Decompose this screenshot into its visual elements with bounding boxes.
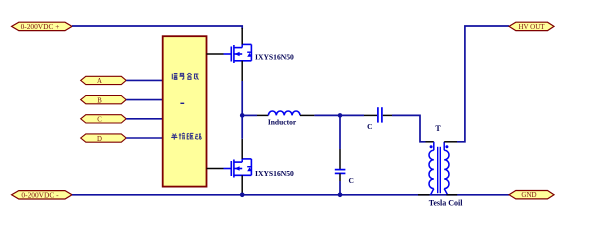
U1 text: 信号合成 (approximated strokes) <box>172 73 198 79</box>
Q2 body diode <box>247 167 252 172</box>
junction node N1 <box>338 113 343 118</box>
T1 core <box>438 147 441 193</box>
wire D to U1 <box>126 137 163 139</box>
junction C2 rail <box>338 193 343 198</box>
port C <box>81 115 127 124</box>
svg-text:A: A <box>97 78 102 85</box>
port HV OUT <box>509 22 554 31</box>
capacitor C1 (series) <box>378 107 382 122</box>
wire C to U1 <box>126 118 163 120</box>
U1 gate pin to Q2 (black) <box>207 168 224 170</box>
capacitor C2 (shunt) <box>335 170 346 174</box>
svg-text:GND: GND <box>521 191 536 199</box>
C2 bottom pin (black) <box>339 173 341 181</box>
T1 polarity dot right <box>445 145 448 148</box>
wire top rail from P1 to Q1 drain <box>72 26 242 29</box>
wire N1 to C1 <box>340 114 364 116</box>
C2 top pin (black) <box>339 149 341 169</box>
transistor Q1 IXYS16N50 (N-MOSFET) <box>231 44 251 63</box>
wire A to U1 <box>126 79 163 81</box>
Q1 body diode <box>247 52 252 57</box>
U1 text: - <box>180 102 184 104</box>
wire bottom rail <box>72 194 509 196</box>
port P2 0-200VDC - <box>12 191 72 200</box>
U1 text: 半桥驱动 (approximated strokes) <box>171 133 201 139</box>
char qu <box>187 133 193 139</box>
svg-text:Tesla Coil: Tesla Coil <box>429 199 463 208</box>
T1 primary top pin (black) <box>426 141 434 143</box>
transformer T1 Tesla Coil <box>429 142 449 195</box>
wire B to U1 <box>126 99 163 101</box>
wire Q1 source to mid node <box>241 81 243 115</box>
U1 gate pin to Q1 (black) <box>207 53 224 55</box>
T1 polarity dot left <box>430 145 433 148</box>
char xin <box>172 74 177 80</box>
char he <box>187 73 192 79</box>
svg-text:HV OUT: HV OUT <box>518 23 545 31</box>
Q2 drain pin (black) <box>241 139 243 159</box>
port GND <box>509 191 554 200</box>
char ban <box>171 134 177 140</box>
Q1 source pin (black) <box>241 61 243 81</box>
svg-text:D: D <box>97 136 102 143</box>
wire L1 to node N1 <box>314 114 340 116</box>
svg-text:IXYS16N50: IXYS16N50 <box>255 169 294 178</box>
driver block U1 (signal synthesis - half bridge drive) <box>163 36 207 186</box>
wire N1 to C2 <box>339 115 341 149</box>
wire C1 to T1 primary top <box>392 115 426 141</box>
char dong <box>195 134 201 140</box>
T1 secondary top pin (black) <box>444 141 457 143</box>
svg-text:C: C <box>97 117 102 124</box>
wire T1 secondary to HV OUT <box>457 26 509 142</box>
transistor Q2 IXYS16N50 (N-MOSFET) <box>231 159 251 178</box>
wire mid node to Q2 drain <box>241 115 243 138</box>
char qiao <box>179 133 185 139</box>
Q2 substrate arrow <box>235 166 240 171</box>
svg-text:0-200VDC -: 0-200VDC - <box>21 191 59 200</box>
L1 right pin (black) <box>300 114 314 116</box>
wire U1 pin to Q2 gate <box>224 168 232 170</box>
svg-text:C: C <box>367 122 372 131</box>
L1 left pin (black) <box>257 114 268 116</box>
svg-text:IXYS16N50: IXYS16N50 <box>255 53 294 62</box>
Q1 drain pin (black) <box>241 28 243 45</box>
port P1 0-200VDC + <box>12 22 72 31</box>
junction Q2 source rail <box>240 193 245 198</box>
Q1 substrate arrow <box>235 52 240 57</box>
char cheng <box>194 74 199 79</box>
Q2 source pin (black) <box>241 175 243 193</box>
svg-text:Inductor: Inductor <box>268 118 297 127</box>
svg-text:C: C <box>349 176 354 185</box>
junction mid node <box>240 113 245 118</box>
port A <box>81 76 127 85</box>
wire mid node to L1 <box>242 114 257 116</box>
wire U1 pin to Q1 gate <box>224 53 232 55</box>
wire C2 to bottom rail <box>339 181 341 195</box>
char hao <box>180 73 185 79</box>
svg-text:0-200VDC +: 0-200VDC + <box>21 22 60 31</box>
C1 left pin (black) <box>364 114 377 116</box>
port B <box>81 96 127 105</box>
svg-text:B: B <box>97 97 102 104</box>
T1 bottom pins (black overlays on rail) <box>418 194 430 196</box>
port D <box>81 134 127 143</box>
inductor L1 <box>268 111 300 115</box>
svg-text:T: T <box>435 124 441 133</box>
C1 right pin (black) <box>383 114 392 116</box>
